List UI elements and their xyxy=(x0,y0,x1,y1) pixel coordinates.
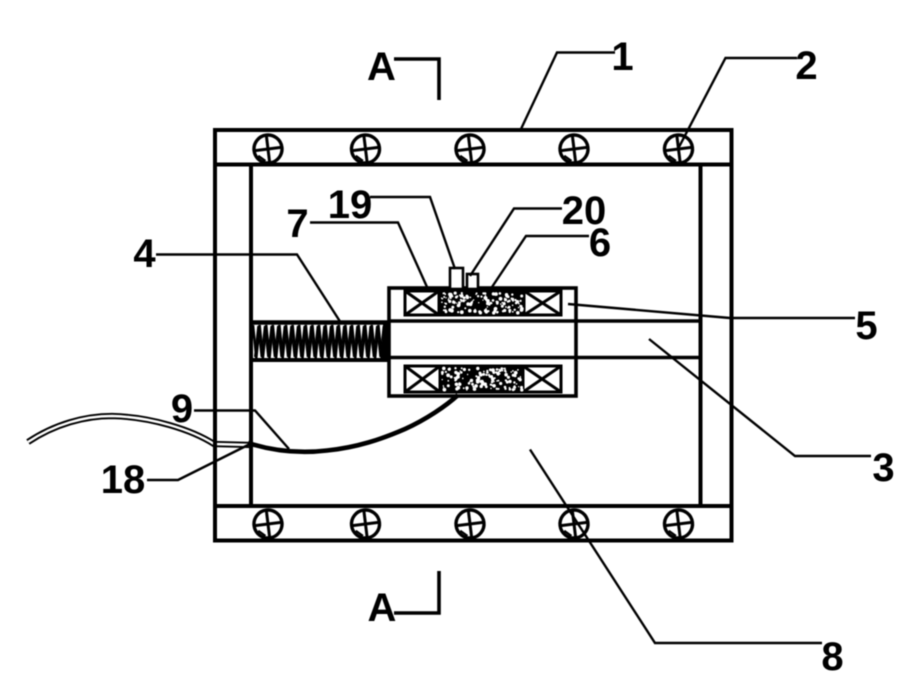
svg-text:A: A xyxy=(368,586,397,630)
leader line 7 xyxy=(310,223,427,288)
leader line 2 xyxy=(679,58,797,147)
coil housing 5 outer rectangle xyxy=(389,288,576,396)
svg-text:7: 7 xyxy=(286,202,308,246)
svg-text:A: A xyxy=(367,45,396,89)
upper winding left X-box xyxy=(405,291,439,315)
leader line 4 xyxy=(156,255,341,324)
svg-text:6: 6 xyxy=(589,221,611,265)
lower winding right X-box xyxy=(523,366,561,392)
svg-text:8: 8 xyxy=(821,635,843,679)
svg-text:18: 18 xyxy=(101,458,146,502)
leader line 1 xyxy=(521,53,615,130)
bolts 2 top row xyxy=(252,133,694,164)
svg-text:2: 2 xyxy=(795,44,817,88)
leader line 8 xyxy=(530,450,822,644)
leader line 19 xyxy=(370,197,455,269)
section mark A bottom xyxy=(394,571,439,613)
section mark A top xyxy=(394,59,439,100)
shaft 3 top line xyxy=(389,319,700,323)
spring 4 top edge xyxy=(251,320,390,325)
svg-text:9: 9 xyxy=(171,387,193,431)
terminal 20 xyxy=(467,274,478,289)
spring 4 end plate xyxy=(383,321,388,359)
spring 4 bottom edge xyxy=(251,358,390,362)
frame outer rectangle 1 xyxy=(215,130,732,541)
lower winding left X-box xyxy=(405,366,440,392)
svg-text:3: 3 xyxy=(872,446,894,490)
leader line 6 xyxy=(490,236,589,290)
external cable sheath (double line) xyxy=(28,416,252,445)
lower winding stipple xyxy=(440,367,524,392)
bolts bottom row xyxy=(252,508,694,539)
svg-text:5: 5 xyxy=(855,304,877,348)
frame left inner wall xyxy=(249,165,253,507)
lower winding band frame xyxy=(405,366,561,392)
svg-text:19: 19 xyxy=(328,183,373,227)
spring 4 coil zigzag return xyxy=(255,326,387,357)
leader line 5 xyxy=(568,304,855,318)
leader line 9 xyxy=(194,411,289,450)
terminal 19 xyxy=(450,268,463,289)
internal cable 9 (thick wire to coil) xyxy=(248,395,458,452)
frame top flange line xyxy=(215,163,732,167)
upper winding stipple 6 xyxy=(439,292,524,315)
upper winding right X-box xyxy=(524,291,561,315)
leader line 3 xyxy=(649,339,871,456)
leader line 18 xyxy=(147,443,252,480)
svg-text:1: 1 xyxy=(611,35,633,79)
upper winding band 7 frame xyxy=(405,291,561,315)
leader line 20 xyxy=(470,209,562,277)
frame right inner wall xyxy=(699,165,703,507)
shaft 3 bottom line xyxy=(389,356,700,360)
svg-text:4: 4 xyxy=(133,232,156,276)
frame bottom flange line xyxy=(215,504,732,508)
spring 4 coil zigzag xyxy=(253,325,385,358)
